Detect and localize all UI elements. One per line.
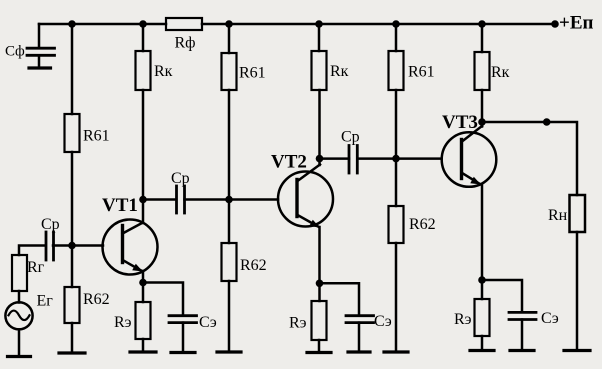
ground under Ег [8, 355, 31, 358]
ground under Сэ1 [171, 351, 195, 354]
wire bias chain 3 upper [395, 24, 398, 51]
ground under R62 stage3 [384, 350, 408, 353]
wire Cф drop [38, 24, 41, 48]
wire input node to cap [19, 246, 45, 256]
wire bias chain 2 upper [228, 24, 231, 53]
ground under Сэ2 [348, 350, 370, 353]
svg-text:Сф: Сф [5, 44, 25, 60]
ground under R62 stage1 [59, 351, 85, 354]
transistor VT3 [442, 126, 497, 187]
wire Сэ3 to ground [521, 320, 524, 351]
node VT3 emitter [478, 276, 486, 284]
wire bias chain 1 middle [71, 152, 74, 287]
svg-text:Rк: Rк [491, 64, 510, 81]
wire Rг to generator [18, 291, 21, 303]
resistor R61 stage2 [222, 53, 237, 90]
ground under Rэ3 [470, 349, 494, 352]
svg-text:Rн: Rн [548, 207, 568, 224]
svg-text:Rэ: Rэ [289, 315, 307, 332]
wire Rк1 top [142, 24, 145, 51]
ground under Rэ2 [307, 351, 331, 354]
capacitor Сэ stage3 [509, 312, 536, 319]
resistor Rэ stage1 [136, 302, 151, 339]
resistor R62 stage1 [65, 287, 80, 323]
wire VT3 collector to output [482, 122, 577, 195]
resistor R61 stage1 [65, 114, 80, 152]
resistor R62 stage2 [222, 243, 237, 281]
node junction at x72 on rail [68, 20, 76, 28]
wire Сэ1 to ground [182, 323, 185, 353]
capacitor Сэ stage2 [346, 316, 374, 323]
svg-text:R61: R61 [239, 65, 266, 82]
node base divider stage3 [392, 155, 400, 163]
resistor Rк stage3 [475, 52, 490, 90]
svg-text:R61: R61 [408, 64, 435, 81]
resistor R61 stage3 [389, 51, 404, 90]
resistor Rк stage2 [312, 51, 327, 90]
node junction at x319 on rail [315, 20, 323, 28]
node junction at x482 on rail [478, 20, 486, 28]
svg-text:Сэ: Сэ [374, 313, 392, 330]
node VT1 emitter [139, 279, 147, 287]
wire generator to ground [18, 329, 21, 356]
transistor VT1 [103, 220, 158, 275]
transistor VT2 [278, 165, 333, 228]
wire bias chain 3 lower [395, 243, 398, 352]
wire VT2 emitter [318, 227, 321, 301]
capacitor Cp input [46, 232, 54, 260]
resistor Rк stage1 [136, 51, 151, 90]
node output tap [543, 118, 551, 126]
capacitor Сэ stage1 [169, 316, 197, 323]
wire Rэ3 to ground [481, 336, 484, 351]
svg-text:Rк: Rк [154, 63, 173, 80]
svg-text:VT1: VT1 [102, 195, 138, 216]
svg-text:+Eп: +Eп [559, 13, 593, 34]
capacitor Cp interstage 2-3 [349, 146, 357, 174]
node VT2 emitter [316, 280, 324, 288]
capacitor Cp interstage 1-2 [177, 186, 185, 213]
svg-text:R62: R62 [83, 291, 110, 308]
resistor Rн [570, 195, 586, 232]
capacitor Cф [27, 48, 55, 55]
resistor Rг [12, 255, 27, 291]
svg-text:R62: R62 [240, 257, 267, 274]
node terminal +Eп [551, 20, 559, 28]
node base divider stage1 [68, 242, 76, 250]
ground under Rэ1 [130, 350, 156, 353]
ground under R62 stage2 [217, 350, 241, 353]
wire emitter to Сэ3 [482, 280, 522, 311]
wire Rк2 to VT2 collector [318, 90, 321, 165]
svg-text:VT3: VT3 [442, 112, 478, 133]
wire Rэ2 to ground [318, 340, 321, 353]
svg-text:R61: R61 [83, 128, 110, 145]
wire Сэ2 to ground [358, 323, 361, 352]
wire top supply rail right segment [202, 23, 555, 26]
wire Cp2 to VT3 base [357, 157, 441, 160]
wire bias chain 1 lower [71, 323, 74, 353]
wire VT3 emitter [481, 184, 484, 299]
svg-text:Rф: Rф [175, 35, 196, 52]
svg-text:Ср: Ср [341, 129, 360, 146]
svg-text:VT2: VT2 [271, 152, 307, 173]
wire bias chain 2 middle [228, 90, 231, 243]
svg-text:Rк: Rк [330, 63, 349, 80]
wire cap to VT1 base [53, 244, 103, 247]
node junction at x229 on rail [225, 20, 233, 28]
svg-text:R62: R62 [409, 216, 436, 233]
wire Rк3 top [481, 24, 484, 52]
node VT3 collector [478, 118, 486, 126]
ground under Cф [29, 66, 51, 69]
wire emitter to Сэ2 [320, 283, 360, 314]
node VT2 collector [316, 155, 324, 163]
resistor Rэ stage3 [475, 299, 490, 336]
wire Cф to ground [38, 55, 41, 68]
wire Rн to ground [576, 232, 579, 351]
svg-text:Ег: Ег [37, 293, 54, 310]
resistor Rэ stage2 [312, 301, 327, 340]
node junction at x143 on rail [139, 20, 147, 28]
wire Cp2 left [320, 157, 350, 160]
wire Cp1 to VT2 base [185, 198, 279, 201]
wire top supply rail left segment [39, 23, 166, 26]
svg-text:Ср: Ср [41, 216, 60, 233]
wire bias chain 1 upper [71, 24, 74, 114]
svg-text:Rэ: Rэ [114, 314, 132, 331]
wire bias chain 3 middle [395, 90, 398, 206]
svg-text:Сэ: Сэ [199, 314, 217, 331]
wire emitter to Сэ1 [143, 283, 183, 315]
wire VT1 emitter [142, 271, 145, 302]
wire Rк2 top [318, 24, 321, 51]
svg-text:Rг: Rг [27, 259, 45, 276]
ground under Сэ3 [510, 349, 534, 352]
svg-text:Rэ: Rэ [454, 311, 472, 328]
resistor Rф [166, 18, 202, 30]
node junction at x396 on rail [392, 20, 400, 28]
wire Rк3 to VT3 collector [481, 90, 484, 127]
wire bias chain 2 lower [228, 281, 231, 352]
resistor R62 stage3 [389, 206, 404, 243]
wire Cp1 left [143, 198, 176, 201]
node VT1 collector [139, 196, 147, 204]
svg-text:Сэ: Сэ [541, 310, 559, 327]
node base divider stage2 [225, 196, 233, 204]
generator Ег [5, 302, 32, 329]
wire Rэ1 to ground [142, 339, 145, 352]
svg-text:Ср: Ср [171, 170, 190, 187]
ground under Rн [564, 349, 590, 352]
wire Rк1 to VT1 collector [142, 90, 145, 223]
